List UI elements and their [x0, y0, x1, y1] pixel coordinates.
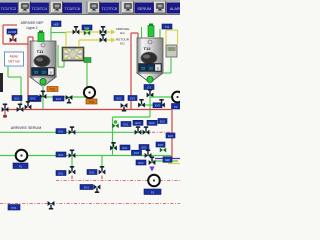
- svg-text:TT01: TT01: [88, 100, 95, 104]
- svg-text:P3: P3: [151, 190, 155, 194]
- svg-text:EV2: EV2: [139, 161, 144, 165]
- svg-text:EV2: EV2: [117, 96, 122, 100]
- svg-text:ALARM: ALARM: [170, 7, 180, 11]
- svg-text:Atelier: Atelier: [9, 55, 19, 59]
- svg-text:EV2: EV2: [150, 121, 155, 125]
- svg-text:EV2: EV2: [158, 143, 163, 147]
- svg-text:EG: EG: [120, 42, 125, 46]
- svg-text:EV1: EV1: [31, 96, 36, 100]
- svg-text:T12: T12: [144, 46, 152, 51]
- svg-text:T11: T11: [37, 49, 44, 54]
- svg-text:EV2: EV2: [142, 145, 147, 149]
- svg-text:EV1: EV1: [124, 122, 129, 126]
- svg-text:ARRIVEE SERUM: ARRIVEE SERUM: [11, 126, 42, 130]
- svg-text:EV1: EV1: [59, 171, 64, 175]
- svg-text:TC7/TC8: TC7/TC8: [102, 7, 117, 11]
- svg-text:33: 33: [42, 70, 46, 74]
- svg-text:EV108: EV108: [8, 30, 16, 34]
- svg-text:EG: EG: [120, 31, 125, 35]
- svg-text:Ligne 2: Ligne 2: [26, 26, 37, 30]
- svg-text:EV1: EV1: [15, 96, 20, 100]
- svg-text:LT1: LT1: [147, 85, 152, 89]
- svg-text:EV1: EV1: [59, 153, 64, 157]
- svg-text:SERUM: SERUM: [137, 7, 151, 11]
- svg-text:TC3/TC4: TC3/TC4: [32, 7, 47, 11]
- svg-text:PV1: PV1: [12, 206, 17, 210]
- svg-text:ARRIVEE NEP: ARRIVEE NEP: [21, 21, 45, 25]
- svg-text:EV2: EV2: [130, 96, 135, 100]
- svg-text:T12: T12: [165, 25, 170, 29]
- svg-text:P2: P2: [174, 105, 178, 109]
- svg-text:TT01: TT01: [49, 87, 56, 91]
- svg-text:EV2: EV2: [136, 121, 141, 125]
- svg-text:EV2: EV2: [155, 104, 160, 108]
- svg-text:EV2: EV2: [168, 134, 173, 138]
- svg-text:EV2: EV2: [134, 151, 139, 155]
- svg-text:TC5/TC6: TC5/TC6: [65, 7, 80, 11]
- svg-text:NEP: NEP: [165, 158, 171, 162]
- svg-text:8: 8: [50, 70, 52, 74]
- svg-text:NET lab: NET lab: [8, 60, 20, 64]
- svg-text:EV1: EV1: [123, 146, 128, 150]
- svg-text:EV1: EV1: [84, 185, 89, 189]
- svg-text:NEP: NEP: [54, 22, 60, 26]
- svg-text:EV1: EV1: [90, 170, 95, 174]
- svg-text:EV1: EV1: [56, 97, 61, 101]
- svg-text:EV1: EV1: [59, 130, 64, 134]
- svg-text:TC1/TC2: TC1/TC2: [1, 7, 16, 11]
- svg-text:EV2: EV2: [160, 119, 165, 123]
- svg-text:8: 8: [157, 66, 159, 70]
- svg-text:33: 33: [149, 66, 153, 70]
- svg-text:33: 33: [141, 66, 145, 70]
- svg-text:33: 33: [34, 70, 38, 74]
- svg-text:P1: P1: [19, 164, 23, 168]
